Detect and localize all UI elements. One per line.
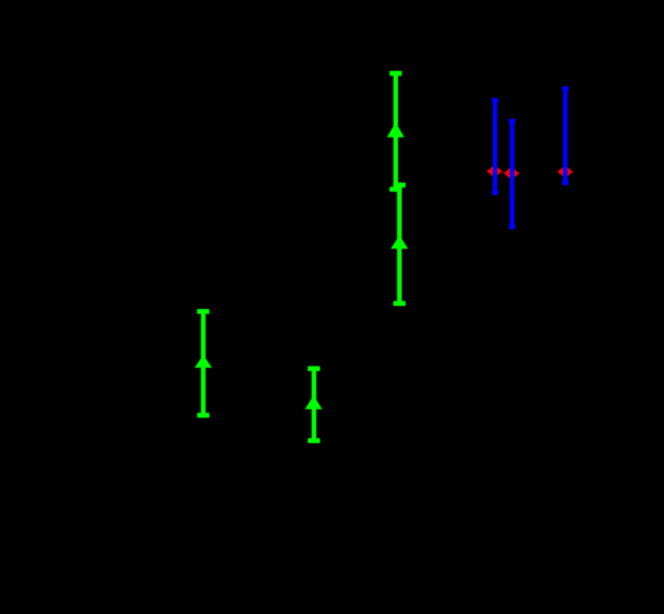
red diamond marker D1 [487,165,503,178]
red diamond marker D2 [504,167,520,180]
blue error bar B3 (x=565.3) [562,86,568,185]
red diamond marker D3 [557,165,573,178]
blue error bar B2 (x=511.7) [509,119,515,229]
blue error bar B1 (x=495) [492,98,498,195]
green triangle marker on G3 [387,125,404,137]
green error bar G4 (x=399) [393,183,405,306]
green triangle marker on G1 [195,357,212,367]
green error bar G3 (x=396) [390,71,402,192]
green error bar G1 (x=203) [197,309,209,418]
green error bar G2 (x=314) [308,366,320,443]
green triangle marker on G4 [391,238,408,249]
green triangle marker on G2 [305,398,322,409]
